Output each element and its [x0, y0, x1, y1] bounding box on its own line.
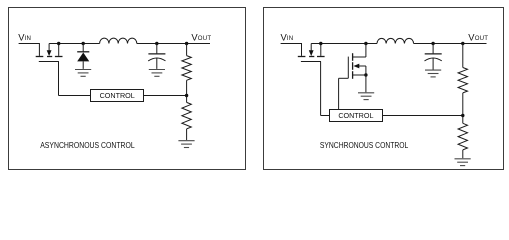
- svg-text:CONTROL: CONTROL: [338, 111, 373, 120]
- svg-text:IN: IN: [25, 35, 32, 42]
- svg-text:ASYNCHRONOUS CONTROL: ASYNCHRONOUS CONTROL: [40, 140, 135, 150]
- svg-text:OUT: OUT: [198, 35, 212, 42]
- svg-text:IN: IN: [287, 35, 294, 42]
- svg-text:SYNCHRONOUS CONTROL: SYNCHRONOUS CONTROL: [320, 140, 409, 150]
- svg-text:OUT: OUT: [475, 35, 489, 42]
- svg-text:CONTROL: CONTROL: [100, 91, 135, 100]
